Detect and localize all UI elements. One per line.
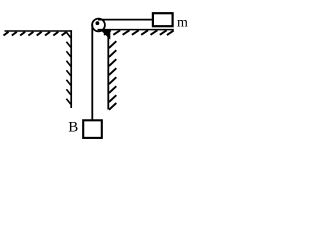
svg-text:B: B xyxy=(68,119,78,135)
pulley wheel xyxy=(92,19,105,32)
cliff top surface line xyxy=(5,30,73,32)
horizontal rope to block m xyxy=(98,19,153,21)
table left face line xyxy=(107,30,109,110)
table top surface line xyxy=(98,29,174,31)
vertical rope to block B xyxy=(91,25,93,121)
svg-text:m: m xyxy=(177,15,188,30)
hatching right of table face xyxy=(109,41,116,110)
hatching below table top surface xyxy=(104,30,174,35)
hatching below cliff top surface xyxy=(4,32,67,36)
cliff right face line xyxy=(70,30,72,108)
block B xyxy=(83,120,102,138)
pulley axle dot xyxy=(96,21,100,25)
hatching left of cliff face xyxy=(66,32,70,104)
block m xyxy=(153,13,173,26)
corner wedge at table edge xyxy=(101,30,111,40)
